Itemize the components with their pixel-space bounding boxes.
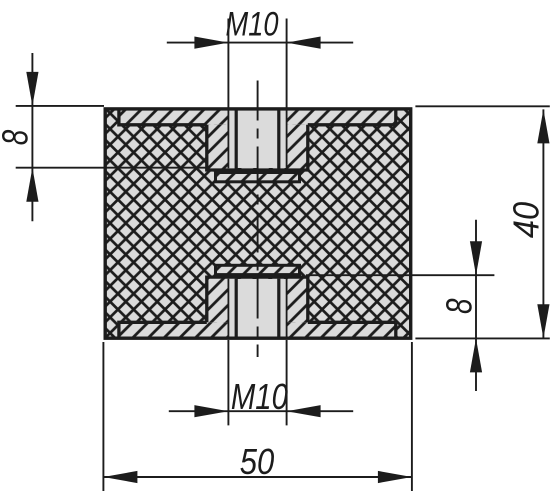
- top insert flange outline: [216, 173, 300, 182]
- rubber body cross-hatched interior: [105, 109, 411, 338]
- dimension M10 bottom: right arrow: [287, 405, 321, 417]
- part outline rectangle: [105, 109, 411, 338]
- dimension M10 top: extension lines: [228, 19, 286, 110]
- svg-text:M10: M10: [226, 6, 279, 44]
- bottom insert boss hatched: [207, 277, 308, 322]
- dimension M10 bottom: dimension line: [169, 410, 353, 412]
- bottom metal plate (strip) hatched: [119, 322, 396, 338]
- dimension 8 left: extension line bottom: [16, 167, 206, 169]
- bottom thread crest lines: [228, 279, 286, 338]
- dimension 8 left: lower arrow: [26, 168, 38, 202]
- dimension 50: extension lines: [103, 342, 412, 491]
- dimension M10 top: left arrow: [194, 37, 228, 49]
- dimension 50: left arrow: [103, 471, 137, 483]
- dimension 8 right: extension line: [306, 274, 494, 276]
- top plate outline: [117, 109, 396, 170]
- dimension 40: dimension line: [542, 109, 544, 338]
- dimension 50: right arrow: [378, 471, 412, 483]
- dimension M10 top: right arrow: [287, 37, 321, 49]
- dimension M10 top: dimension line: [167, 42, 353, 44]
- dimension 8 right: upper arrow: [470, 241, 482, 275]
- top thread hole bore (plain): [228, 111, 286, 169]
- dimension 40: upper arrow: [537, 109, 549, 143]
- dimension 50: dimension line: [103, 476, 412, 478]
- top metal plate (strip) hatched: [119, 109, 396, 125]
- dimension 40: lower arrow: [537, 304, 549, 338]
- svg-text:50: 50: [240, 441, 275, 482]
- dimension M10 bottom: left arrow: [194, 405, 228, 417]
- top thread crest lines: [228, 109, 286, 168]
- dimension 40: extension line bottom: [415, 337, 549, 339]
- vertical centerline dash-dot: [257, 81, 259, 358]
- dimension 40: extension line top: [415, 105, 549, 107]
- top insert flange hatched: [216, 173, 300, 182]
- dimension M10 bottom: extension lines: [228, 340, 286, 425]
- svg-text:8: 8: [0, 130, 35, 146]
- bottom insert flange hatched: [216, 265, 300, 274]
- dimension 8 left: extension line top: [16, 105, 104, 107]
- svg-text:M10: M10: [231, 376, 288, 417]
- top thread bore lines: [236, 109, 279, 169]
- svg-text:40: 40: [505, 202, 546, 238]
- top insert boss hatched: [207, 125, 308, 170]
- dimension 8 right: lower arrow: [470, 338, 482, 372]
- bottom thread bore lines: [236, 279, 279, 338]
- dimension 8 right: dimension line: [475, 220, 477, 391]
- dimension 8 left: upper arrow: [26, 72, 38, 106]
- bottom insert flange outline: [216, 265, 300, 274]
- bottom thread hole bore (plain): [228, 279, 286, 337]
- svg-text:8: 8: [438, 299, 479, 315]
- bottom plate outline: [117, 277, 396, 338]
- dimension 8 left: dimension line: [31, 53, 33, 221]
